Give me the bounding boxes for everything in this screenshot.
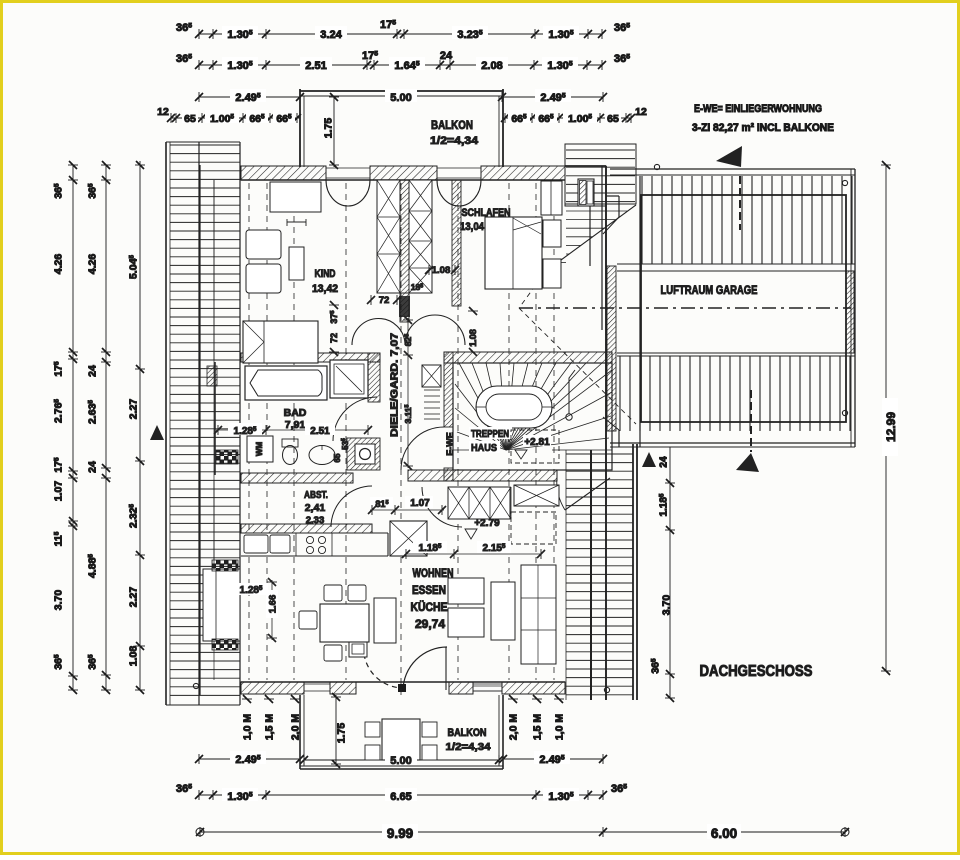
toilet [282,439,298,447]
svg-text:24: 24 [87,461,99,473]
svg-text:3.70: 3.70 [53,590,65,611]
bathtub [245,366,327,400]
svg-text:1.08: 1.08 [128,646,140,667]
svg-text:2.27: 2.27 [128,587,140,608]
svg-text:1,0 M: 1,0 M [242,714,254,741]
svg-text:4.26: 4.26 [53,254,65,275]
svg-text:6.65: 6.65 [390,791,411,803]
svg-text:+2.79: +2.79 [474,518,500,529]
svg-text:KIND: KIND [315,268,336,280]
stair top wall [444,352,612,363]
dining table [320,604,369,642]
balcony door KIND arc [326,180,370,206]
stair/living bottom wall [408,470,557,481]
interior small dims [216,429,368,431]
top dimension row 2 [199,64,603,66]
garage right wall hatch [846,271,854,353]
svg-text:5.00: 5.00 [390,92,411,104]
left dim column B [105,165,107,690]
svg-text:1.07: 1.07 [53,481,65,502]
left dim column C [139,161,141,690]
svg-text:12.99: 12.99 [884,412,898,442]
svg-text:2.51: 2.51 [310,426,330,437]
cabinet [374,598,396,643]
washing machine [247,436,273,462]
svg-text:65: 65 [607,113,619,125]
schlafen closet [541,181,562,215]
schlafen bed [485,217,542,289]
svg-text:12: 12 [157,106,169,118]
svg-text:65: 65 [184,113,196,125]
svg-text:KÜCHE: KÜCHE [411,601,448,614]
left wall lines [199,165,201,695]
balcony top [300,90,503,92]
svg-text:BAD: BAD [284,407,307,419]
wall hall/schlafen [452,180,461,306]
balcony double door arcs [364,654,402,688]
shoe shelf [424,389,440,391]
bath top wall [241,353,380,362]
svg-text:1.07: 1.07 [410,498,430,509]
svg-text:72: 72 [329,333,339,343]
svg-text:SCHLAFEN: SCHLAFEN [462,207,511,219]
shower [330,360,368,398]
svg-text:+2.81: +2.81 [524,437,550,448]
door SCHLAFEN arc [437,180,481,206]
svg-text:24: 24 [659,456,670,468]
svg-text:ESSEN: ESSEN [412,585,446,597]
roof height dashed lines [248,183,250,680]
svg-text:BALKON: BALKON [448,727,487,739]
svg-text:1,0 M: 1,0 M [554,714,566,741]
shelf unit [521,565,556,664]
svg-text:LUFTRAUM GARAGE: LUFTRAUM GARAGE [661,283,758,297]
stair left wall [444,352,453,427]
svg-text:4.26: 4.26 [87,254,99,275]
svg-text:ABST.: ABST. [304,489,328,501]
top exterior wall [241,179,565,181]
couch left [203,569,240,641]
stove [306,536,313,543]
door hall->stairs arc [401,427,444,470]
svg-text:24: 24 [440,50,453,62]
wall stub below wardrobe + double doors [400,293,409,322]
svg-text:TREPPEN: TREPPEN [471,428,509,440]
right inner dim chain [669,447,671,698]
svg-text:72: 72 [379,295,390,306]
right roof eave band lower [566,453,633,455]
svg-text:2.51: 2.51 [305,60,326,72]
svg-text:3.24: 3.24 [320,29,342,41]
svg-text:BALKON: BALKON [431,118,473,132]
section marker bottom [750,390,752,452]
svg-text:29,74: 29,74 [415,619,446,631]
schlafen valley diagonals [519,271,546,308]
svg-text:9.99: 9.99 [387,826,413,841]
svg-text:WOHNEN: WOHNEN [413,568,454,580]
fridge X box [390,521,427,556]
ridge line [400,183,402,695]
section marker top [739,176,741,230]
left slope marker triangle [150,425,164,440]
stair entry arrow [566,414,572,420]
garage centerline [519,307,851,309]
svg-text:6.00: 6.00 [711,826,737,841]
top dimension row 4 [171,117,300,119]
svg-text:1/2=4,34: 1/2=4,34 [430,135,479,147]
balcony bottom [299,695,301,769]
wall kind/hall with wardrobe [400,180,409,293]
bottom overall dims 9.99 / 6.00 [200,831,845,833]
svg-text:E-WE= EINLIEGERWOHNUNG: E-WE= EINLIEGERWOHNUNG [694,103,822,115]
svg-text:2.33: 2.33 [306,515,325,526]
svg-text:1.08: 1.08 [468,329,478,347]
svg-text:7,91: 7,91 [285,419,306,431]
landing line [453,449,476,451]
svg-text:1.75: 1.75 [336,723,348,744]
bath right wall [368,353,380,402]
svg-text:1,5 M: 1,5 M [264,714,276,741]
svg-text:5.00: 5.00 [390,755,411,767]
balcony top depth dim 1.75 [333,97,335,167]
svg-text:1/2=4,34: 1/2=4,34 [446,741,491,753]
left dim column A [72,165,74,690]
door living arc [422,487,462,527]
right wall lines [601,166,603,330]
E-WE entry door [565,478,610,510]
washbasin [309,446,335,465]
svg-text:HAUS: HAUS [471,442,497,454]
svg-text:DIELE/GARD. 7,07: DIELE/GARD. 7,07 [390,332,401,437]
balcony bottom depth dim [335,695,337,766]
roof valley diagonal [546,205,636,271]
svg-text:24: 24 [87,365,99,377]
svg-text:65: 65 [333,453,342,462]
svg-text:13,04: 13,04 [460,221,485,233]
svg-text:DACHGESCHOSS: DACHGESCHOSS [700,663,813,680]
svg-text:2.27: 2.27 [128,399,140,420]
hall cupboard X [422,365,441,387]
svg-text:2,0 M: 2,0 M [508,714,520,741]
svg-text:1.66: 1.66 [267,595,278,614]
svg-text:13,42: 13,42 [312,283,338,295]
svg-text:2.08: 2.08 [481,60,502,72]
garage railing bottom band [619,356,621,431]
svg-text:WM: WM [255,442,264,457]
kind furniture [270,182,321,212]
chimney [578,179,594,206]
kind bed [243,321,318,363]
right overall dim 12.99 [885,165,887,671]
right roof eave band upper [566,149,635,151]
bath bottom wall [241,473,353,483]
svg-text:1.08: 1.08 [432,265,451,276]
svg-text:3.70: 3.70 [661,595,673,616]
bottom exterior wall [241,681,565,683]
svg-text:E-WE: E-WE [445,432,455,456]
right seat squares [448,578,484,604]
garage inner walls [641,195,846,422]
svg-text:1,5 M: 1,5 M [532,714,544,741]
svg-text:1.75: 1.75 [323,118,335,139]
kitchen counter [241,532,388,534]
garage bottom edge [610,442,855,444]
re-draw 5.00 labels on top [385,89,417,102]
svg-text:2,41: 2,41 [305,502,326,514]
staircase [453,363,612,470]
slope marker right [642,452,656,467]
cupboards at stair wall [448,487,510,519]
svg-text:12: 12 [635,106,647,118]
abst bottom wall [241,524,372,533]
garage top edge [610,168,855,170]
bottom dim row 6.65 [199,794,603,796]
bottom dim row 2.49/5.00 [199,758,300,760]
page frame [0,0,960,3]
top dimension row 3 [199,96,300,98]
top dimension row 1 [199,33,603,35]
balcony table set [382,719,420,760]
garage circles [654,164,659,169]
left roof eave band [170,144,240,146]
garage railing top band [641,176,643,264]
svg-text:3-ZI 82,27 m² INCL BALKONE: 3-ZI 82,27 m² INCL BALKONE [692,122,834,134]
